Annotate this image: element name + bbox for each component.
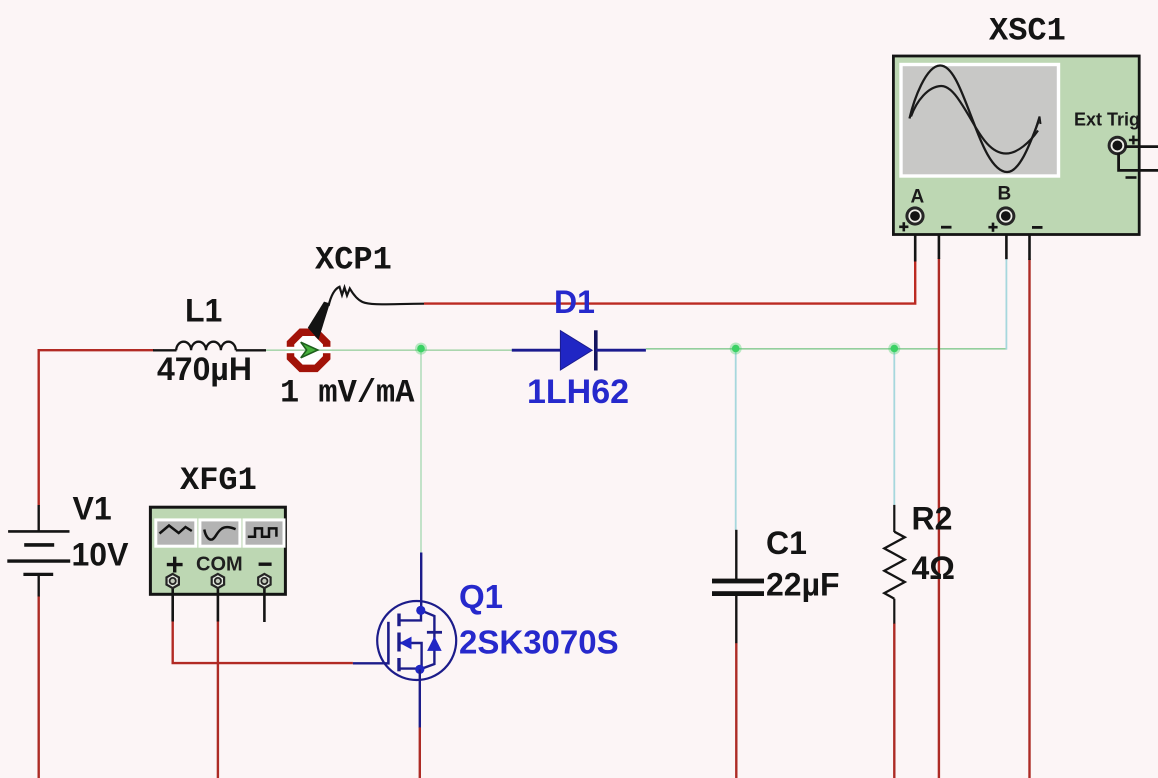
- Q1 drain node dot: [416, 606, 425, 615]
- label A: [911, 187, 925, 208]
- wire: pale green net from L1 to D1 anode through probe: [266, 349, 512, 351]
- Q1 drain pin: [420, 553, 422, 612]
- svg-text:V1: V1: [73, 491, 112, 527]
- svg-text:22µF: 22µF: [766, 567, 840, 603]
- XSC1 A plus mark: [899, 222, 908, 231]
- XSC1 channel A terminal: [905, 206, 924, 225]
- XSC1 channel A pin: [914, 220, 917, 262]
- wire: light cyan vertical up to scope B+ pin: [1005, 258, 1007, 349]
- label XCP1: [315, 242, 392, 279]
- Q1 source pin: [419, 669, 421, 727]
- value 470uH: [157, 351, 252, 387]
- svg-text:XFG1: XFG1: [180, 462, 257, 499]
- Q1 gate lead: [353, 662, 390, 664]
- XSC1 trace arrow tip: [1035, 117, 1041, 132]
- svg-text:Ext Trig: Ext Trig: [1074, 110, 1140, 130]
- label XSC1: [989, 13, 1066, 50]
- oscilloscope XSC1: [893, 56, 1158, 262]
- svg-text:470µH: 470µH: [157, 351, 252, 387]
- Q1 body diode: [427, 631, 442, 634]
- XSC1 B minus mark: [1032, 226, 1043, 229]
- XSC1 ext trig plus mark: [1129, 136, 1138, 145]
- XSC1 body: [893, 56, 1139, 235]
- Q1 channel segments: [397, 614, 400, 627]
- XFG1 plus mark: [167, 557, 183, 573]
- svg-text:1LH62: 1LH62: [527, 373, 629, 411]
- svg-text:COM: COM: [196, 554, 243, 576]
- value 10V: [72, 537, 130, 573]
- wire: red vertical from R2 bottom to canvas bottom: [893, 623, 895, 778]
- svg-text:D1: D1: [554, 284, 595, 320]
- XFG1 COM terminal: [212, 574, 224, 622]
- wire: red from XFG1 + terminal down and right to Q1 gate: [173, 621, 353, 663]
- wire: red from probe cable to scope channel A+: [424, 260, 915, 303]
- svg-text:2SK3070S: 2SK3070S: [459, 624, 619, 661]
- label C1: [766, 525, 807, 561]
- label B: [998, 184, 1012, 205]
- value 2SK3070S: [459, 624, 619, 661]
- svg-text:1 mV/mA: 1 mV/mA: [280, 375, 415, 412]
- wire: red vertical from scope B- to canvas bottom: [1028, 259, 1030, 778]
- value 4ohm: [912, 550, 955, 586]
- XFG1 square button: [244, 520, 284, 546]
- transistor Q1 2SK3070S (NMOS): [353, 553, 456, 728]
- Q1 source node dot: [415, 665, 424, 674]
- svg-text:C1: C1: [766, 525, 807, 561]
- wire: ext trig - to right edge: [1119, 153, 1158, 170]
- wire: red vertical from XFG1 COM to canvas bottom: [217, 621, 219, 778]
- Q1 source link: [399, 667, 420, 669]
- XSC1 trace outer sine: [910, 65, 1039, 172]
- wire: red vertical from C1 bottom to canvas bottom: [735, 643, 737, 778]
- resistor R2 4ohm: [884, 505, 905, 624]
- wire: light cyan vertical from node C down to R2: [893, 349, 895, 506]
- wire: light cyan vertical from node B down to C1: [735, 349, 737, 531]
- svg-text:L1: L1: [185, 293, 222, 329]
- label COM: [196, 554, 243, 576]
- label L1: [185, 293, 222, 329]
- function generator XFG1: [150, 507, 285, 622]
- probe direction arrow: [301, 342, 318, 358]
- XSC1 channel B minus stub: [1010, 217, 1030, 260]
- current probe XCP1: [286, 287, 425, 369]
- XSC1 channel B terminal: [996, 206, 1015, 225]
- XSC1 channel A minus stub: [919, 217, 939, 259]
- wire: red vertical from scope A- to canvas bottom: [938, 258, 940, 778]
- wire: red vertical from Q1 source to canvas bottom: [419, 727, 421, 778]
- XSC1 ext trig minus mark: [1126, 176, 1137, 179]
- node A: junction dot at probe/Q1 drain: [415, 343, 427, 355]
- Q1 drain link: [399, 611, 421, 620]
- wire: pale green vertical from node A down to Q1 drain: [420, 349, 422, 554]
- probe ring: [291, 332, 327, 368]
- label D1: [554, 284, 595, 320]
- probe clamp cable: [329, 287, 425, 306]
- XSC1 A minus mark: [941, 226, 952, 229]
- XFG1 - terminal: [258, 574, 270, 622]
- XSC1 Ext Trig terminal: [1108, 136, 1128, 156]
- label XFG1: [180, 462, 257, 499]
- battery V1: [7, 505, 70, 597]
- svg-text:10V: 10V: [72, 537, 130, 573]
- Q1 substrate arrow line: [399, 643, 422, 669]
- svg-text:A: A: [911, 187, 925, 208]
- XSC1 B plus mark: [988, 223, 997, 232]
- probe clamp handle: [308, 302, 330, 340]
- node B: junction dot at C1: [730, 343, 742, 355]
- XFG1 minus mark: [259, 563, 272, 566]
- svg-text:Q1: Q1: [459, 578, 503, 615]
- XSC1 trace inner sine: [911, 86, 1038, 154]
- svg-text:R2: R2: [912, 501, 953, 537]
- diode D1 1LH62: [512, 330, 646, 370]
- wire: pale green net from D1 cathode to scope B riser: [646, 348, 1007, 350]
- wire gap through probe: [286, 347, 332, 353]
- value 1 mV/mA: [280, 375, 415, 412]
- svg-text:4Ω: 4Ω: [912, 550, 955, 586]
- svg-text:XCP1: XCP1: [315, 242, 392, 279]
- node C: junction dot at R2: [888, 343, 900, 355]
- label Q1: [459, 578, 503, 615]
- Q1 body diode branch: [420, 610, 435, 669]
- wire: ext trig + to right edge: [1125, 145, 1158, 148]
- XFG1 sine button: [156, 520, 196, 546]
- XFG1 + terminal: [167, 574, 179, 622]
- XSC1 channel B pin: [1005, 220, 1008, 259]
- XFG1 triangle button: [200, 520, 240, 546]
- label R2: [912, 501, 953, 537]
- value 1LH62: [527, 373, 629, 411]
- Q1 gate bar: [387, 622, 390, 665]
- label V1: [73, 491, 112, 527]
- XSC1 screen: [901, 65, 1059, 177]
- svg-text:XSC1: XSC1: [989, 13, 1066, 50]
- wire: red vertical from V1 bottom to canvas bottom: [38, 596, 40, 778]
- svg-text:B: B: [998, 184, 1012, 205]
- inductor L1: [153, 342, 266, 351]
- label Ext Trig: [1074, 110, 1140, 130]
- value 22uF: [766, 567, 840, 603]
- wire: red from V1 top up and right to L1: [39, 350, 154, 505]
- capacitor C1 22uF: [712, 530, 764, 643]
